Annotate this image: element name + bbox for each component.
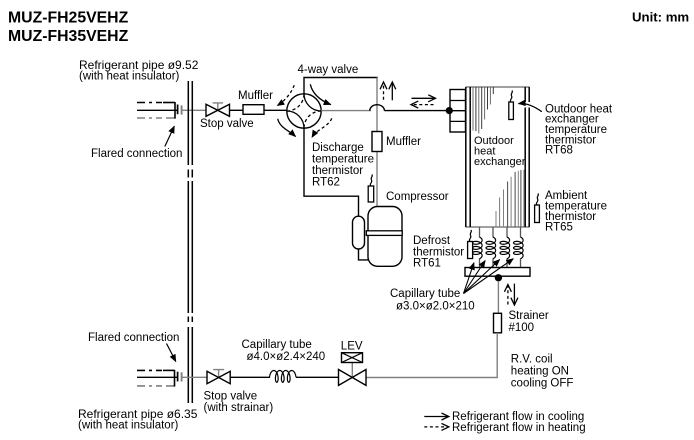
svg-text:Unit: mm: Unit: mm (632, 10, 689, 25)
svg-text:(with heat insulator): (with heat insulator) (79, 71, 180, 83)
svg-text:(with heat insulator): (with heat insulator) (78, 420, 179, 432)
svg-text:RT65: RT65 (545, 221, 573, 233)
svg-text:RT68: RT68 (545, 145, 573, 157)
svg-text:RT62: RT62 (312, 176, 340, 188)
svg-text:heating ON: heating ON (511, 366, 569, 378)
svg-text:(with strainar): (with strainar) (204, 402, 274, 414)
svg-text:MUZ-FH35VEHZ: MUZ-FH35VEHZ (8, 28, 129, 45)
svg-text:Refrigerant flow in heating: Refrigerant flow in heating (452, 422, 586, 434)
svg-text:Flared connection: Flared connection (91, 148, 182, 160)
svg-text:exchanger: exchanger (474, 156, 526, 168)
svg-text:Muffler: Muffler (238, 90, 273, 102)
svg-text:ø3.0×ø2.0×210: ø3.0×ø2.0×210 (396, 300, 475, 312)
svg-text:RT61: RT61 (413, 258, 441, 270)
svg-text:ø4.0×ø2.4×240: ø4.0×ø2.4×240 (247, 351, 326, 363)
svg-text:R.V. coil: R.V. coil (511, 353, 553, 365)
svg-text:#100: #100 (509, 322, 535, 334)
svg-text:Stop valve: Stop valve (204, 390, 258, 402)
svg-text:Stop valve: Stop valve (200, 118, 254, 130)
svg-text:Discharge: Discharge (312, 142, 364, 154)
svg-text:cooling OFF: cooling OFF (511, 378, 574, 390)
svg-text:Defrost: Defrost (413, 235, 451, 247)
svg-text:LEV: LEV (341, 341, 363, 353)
svg-text:thermistor: thermistor (312, 165, 363, 177)
svg-text:4-way valve: 4-way valve (298, 64, 359, 76)
svg-text:temperature: temperature (312, 154, 374, 166)
svg-text:Capillary tube: Capillary tube (390, 288, 460, 300)
svg-text:MUZ-FH25VEHZ: MUZ-FH25VEHZ (8, 10, 129, 27)
svg-text:Strainer: Strainer (509, 310, 549, 322)
svg-text:Compressor: Compressor (386, 191, 449, 203)
svg-text:Muffler: Muffler (386, 136, 421, 148)
svg-text:Capillary tube: Capillary tube (242, 339, 312, 351)
svg-text:Flared connection: Flared connection (88, 332, 179, 344)
